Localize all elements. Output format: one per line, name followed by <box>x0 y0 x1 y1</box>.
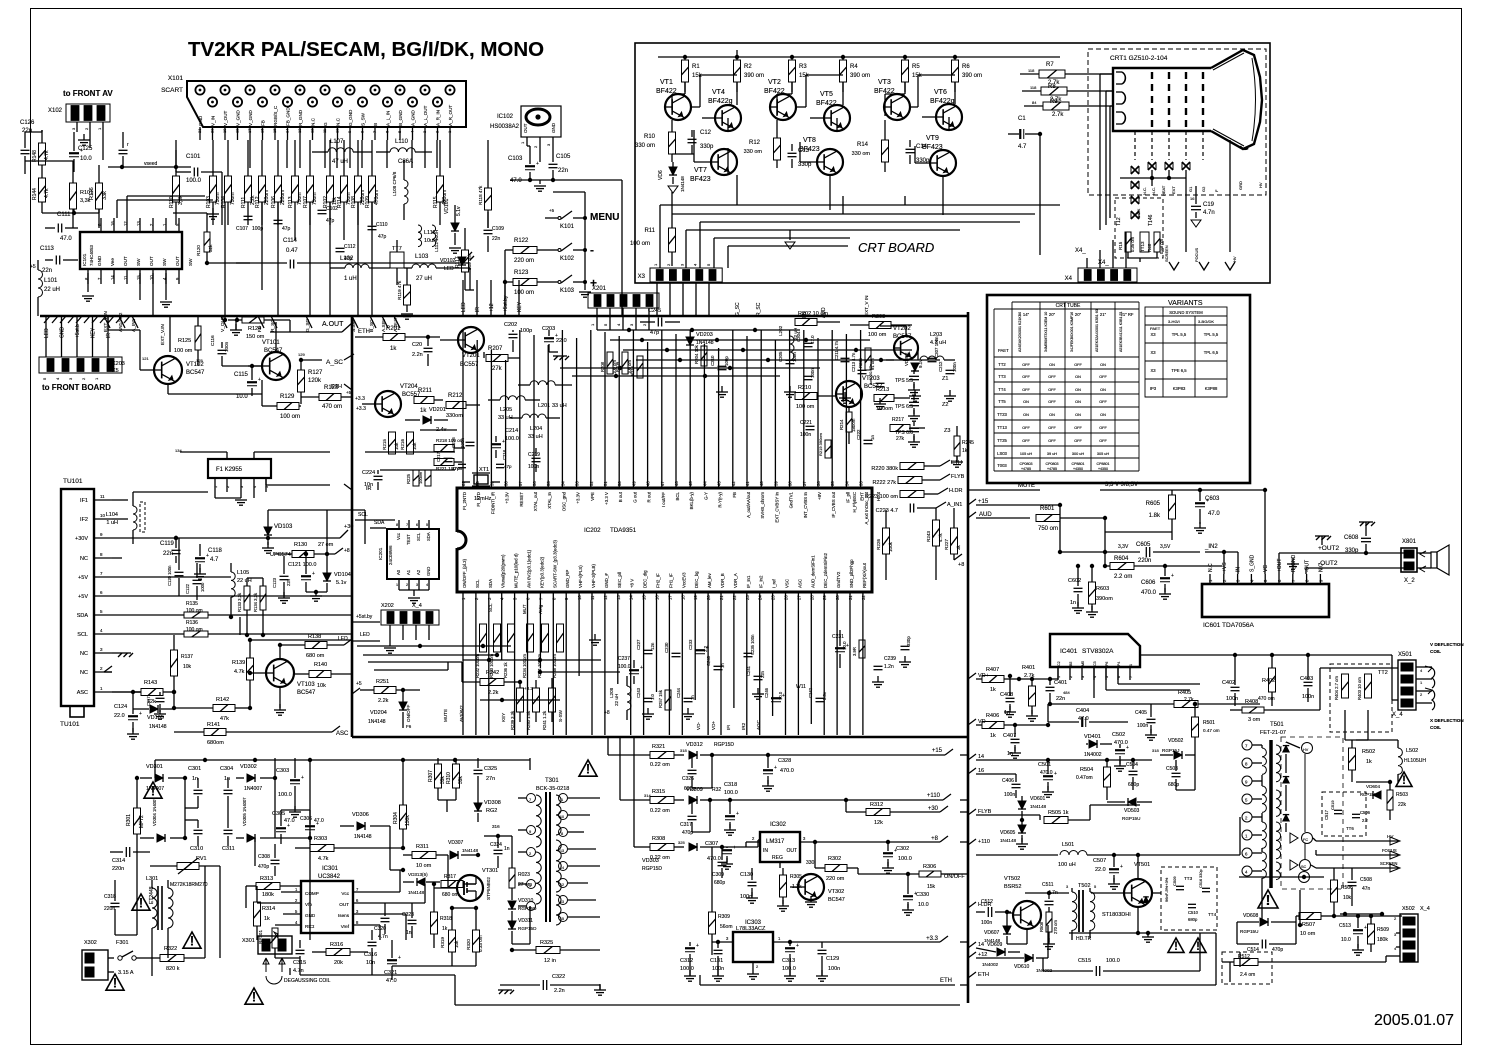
key K102 <box>545 243 594 262</box>
svg-text:R211: R211 <box>418 388 433 394</box>
svg-text:7: 7 <box>1245 744 1248 749</box>
svg-text:VD503: VD503 <box>1124 808 1140 814</box>
inductor L203 <box>918 332 955 360</box>
svg-text:B out: B out <box>618 491 623 502</box>
svg-text:R106: R106 <box>271 196 277 208</box>
svg-text:24C08W6: 24C08W6 <box>388 545 393 565</box>
svg-text:32k: 32k <box>208 244 213 252</box>
rail vseed <box>108 161 191 169</box>
svg-text:TT6: TT6 <box>1346 826 1354 831</box>
svg-text:390 om: 390 om <box>850 73 870 79</box>
svg-text:R out: R out <box>647 491 652 502</box>
resistor R7 <box>1020 62 1113 86</box>
capacitor C223 <box>876 504 936 515</box>
svg-text:1: 1 <box>396 583 398 587</box>
svg-text:R221 100 om: R221 100 om <box>436 466 464 471</box>
svg-text:9: 9 <box>1245 780 1248 785</box>
svg-text:OFF: OFF <box>1074 363 1082 367</box>
svg-text:100.0: 100.0 <box>680 966 694 972</box>
warning triangle psu2 <box>132 894 150 910</box>
svg-text:2.2k: 2.2k <box>378 698 389 704</box>
svg-text:5: 5 <box>603 323 608 326</box>
transistor VT9 <box>922 135 956 176</box>
svg-text:50: 50 <box>617 481 622 486</box>
tuner TU101 <box>60 478 94 728</box>
svg-text:L105: L105 <box>237 570 249 576</box>
resistor R3 <box>789 57 810 92</box>
svg-text:4: 4 <box>253 486 257 488</box>
svg-text:R232 100om: R232 100om <box>475 654 480 678</box>
svg-text:3: 3 <box>1081 676 1085 678</box>
resistor R214 <box>839 407 856 444</box>
svg-text:TT4: TT4 <box>998 387 1006 392</box>
capacitor C235 <box>744 634 756 657</box>
svg-text:C212: C212 <box>938 361 943 372</box>
svg-text:22n: 22n <box>163 551 173 557</box>
svg-text:R124: R124 <box>248 326 261 332</box>
svg-text:12: 12 <box>560 883 564 887</box>
svg-text:100n: 100n <box>1004 792 1015 798</box>
resistor R128 <box>301 385 352 410</box>
svg-text:R120: R120 <box>196 245 201 256</box>
svg-text:2.2k: 2.2k <box>488 690 499 696</box>
svg-text:118: 118 <box>1028 68 1035 73</box>
resistor R139 <box>232 640 254 692</box>
svg-text:R241 1.2k: R241 1.2k <box>542 710 547 730</box>
svg-text:X3: X3 <box>638 274 646 280</box>
svg-text:XTAL_out: XTAL_out <box>533 491 538 511</box>
svg-text:VD306: VD306 <box>352 812 369 818</box>
wires right cluster <box>880 326 936 580</box>
svg-text:VT1: VT1 <box>660 79 673 86</box>
svg-text:REG: REG <box>772 855 783 861</box>
connector X203 <box>39 341 125 380</box>
svg-text:R311: R311 <box>416 844 429 850</box>
IC601 pins <box>1208 554 1324 584</box>
CRT board wiring <box>660 50 1060 268</box>
svg-text:1: 1 <box>97 127 102 130</box>
svg-text:VC: VC <box>1263 565 1269 572</box>
inductor L208 <box>609 676 631 720</box>
svg-text:6: 6 <box>100 590 103 595</box>
svg-text:3.3n: 3.3n <box>822 691 827 700</box>
resistor R130 <box>275 542 350 558</box>
svg-text:X501: X501 <box>1398 652 1413 658</box>
svg-text:UPC574: UPC574 <box>270 552 291 558</box>
svg-text:10: 10 <box>100 513 106 518</box>
inductor L202 <box>778 325 798 360</box>
svg-text:SCL: SCL <box>488 603 493 612</box>
svg-text:15k: 15k <box>799 73 810 79</box>
svg-text:GndTV1: GndTV1 <box>789 491 794 508</box>
svg-text:1n: 1n <box>870 435 875 440</box>
svg-text:1: 1 <box>590 323 595 326</box>
svg-text:75om: 75om <box>230 192 236 205</box>
svg-text:Vee: Vee <box>110 258 115 266</box>
svg-text:R109: R109 <box>365 196 371 208</box>
svg-text:52: 52 <box>589 481 594 486</box>
svg-text:FB: FB <box>261 120 266 126</box>
svg-text:VT502: VT502 <box>1004 876 1020 882</box>
svg-text:C210: C210 <box>710 355 715 366</box>
capacitor C316 <box>364 930 377 966</box>
svg-text:LS03: LS03 <box>997 451 1007 456</box>
svg-text:L201: L201 <box>538 403 550 409</box>
svg-text:100p: 100p <box>520 328 532 334</box>
resistor R1 <box>682 57 703 92</box>
svg-text:VD311: VD311 <box>518 918 533 924</box>
diode VD604 <box>1360 784 1381 799</box>
svg-text:ETH: ETH <box>358 329 370 335</box>
svg-text:5: 5 <box>265 486 269 488</box>
warning triangle near T301 <box>579 760 597 776</box>
svg-text:C501: C501 <box>1038 762 1051 768</box>
capacitor C507 <box>1093 853 1123 889</box>
svg-text:22n: 22n <box>42 268 52 274</box>
svg-text:RESET: RESET <box>519 492 524 507</box>
svg-text:5: 5 <box>295 909 298 914</box>
svg-text:10.0: 10.0 <box>918 902 929 908</box>
svg-text:C403: C403 <box>1300 676 1313 682</box>
svg-text:C204: C204 <box>796 331 801 342</box>
capacitor C232 <box>688 639 709 654</box>
svg-text:+110: +110 <box>978 839 990 845</box>
resistor R305 <box>777 868 802 911</box>
svg-text:C602: C602 <box>1068 578 1081 584</box>
capacitor C515 <box>1043 933 1200 976</box>
svg-text:BC547: BC547 <box>828 897 845 903</box>
svg-text:330 om: 330 om <box>744 149 763 155</box>
svg-text:R1: R1 <box>692 64 700 70</box>
transistor VT6 <box>930 89 962 130</box>
resistor R320 <box>466 908 483 966</box>
svg-text:R144: R144 <box>32 188 38 200</box>
svg-text:390om: 390om <box>1096 596 1113 602</box>
svg-text:C126: C126 <box>20 120 35 126</box>
svg-text:39k: 39k <box>458 775 464 784</box>
CRT electrode leads <box>1135 131 1203 160</box>
svg-text:R503: R503 <box>1396 792 1408 798</box>
diode VD103 <box>262 510 365 558</box>
svg-text:3,3k: 3,3k <box>178 195 184 205</box>
resistor R202 <box>795 311 840 326</box>
svg-text:2: 2 <box>642 323 647 326</box>
resistor R118 <box>478 140 492 228</box>
svg-text:10k: 10k <box>1343 895 1352 901</box>
front board signal labels mid <box>461 280 523 316</box>
capacitor C218 <box>496 449 512 469</box>
svg-text:R205: R205 <box>858 357 863 368</box>
flag ONOFF <box>944 874 965 880</box>
svg-text:47.0: 47.0 <box>314 818 324 824</box>
svg-text:VT7: VT7 <box>694 167 707 174</box>
svg-text:OFF: OFF <box>1099 439 1107 443</box>
svg-text:2: 2 <box>533 145 538 148</box>
svg-text:IC601 TDA7056A: IC601 TDA7056A <box>1203 622 1254 629</box>
svg-text:2.4v: 2.4v <box>436 427 447 433</box>
svg-text:6: 6 <box>416 523 418 527</box>
svg-text:R7: R7 <box>1046 62 1054 68</box>
svg-text:C123: C123 <box>272 577 277 588</box>
capacitor C102 <box>318 206 339 224</box>
svg-text:1k: 1k <box>420 408 427 414</box>
mid block left flags <box>331 384 372 492</box>
svg-text:C112: C112 <box>344 244 356 250</box>
svg-text:SDA: SDA <box>488 579 493 588</box>
transformer T502 <box>1066 883 1097 942</box>
svg-text:R148: R148 <box>32 150 38 162</box>
svg-text:100 om: 100 om <box>186 608 203 614</box>
capacitor C221 <box>800 420 815 438</box>
svg-text:FC: FC <box>1303 838 1308 842</box>
resistor R46 <box>1147 232 1164 254</box>
menu key bus wires <box>503 180 622 316</box>
svg-text:R325: R325 <box>540 940 553 946</box>
resistor R323 <box>509 836 532 900</box>
svg-text:22n: 22n <box>492 236 501 242</box>
svg-text:47p: 47p <box>282 226 291 232</box>
svg-text:C116: C116 <box>210 335 215 346</box>
capacitor C328 <box>762 753 794 791</box>
svg-text:ASC: ASC <box>797 579 802 588</box>
capacitor C315 <box>293 940 306 975</box>
resistor R308 <box>634 836 685 861</box>
IC202 extra top labels <box>852 491 881 524</box>
svg-text:3: 3 <box>726 936 729 941</box>
svg-text:0.47 om: 0.47 om <box>1203 728 1220 733</box>
svg-text:VD+: VD+ <box>711 721 716 730</box>
svg-text:C407: C407 <box>1003 733 1016 739</box>
diode VD204 <box>368 690 412 729</box>
svg-text:VD301: VD301 <box>146 764 163 770</box>
svg-text:BF422g: BF422g <box>930 98 955 105</box>
svg-text:!: ! <box>1402 773 1406 787</box>
svg-text:11: 11 <box>590 595 595 600</box>
inductor L501 <box>1058 842 1240 868</box>
svg-text:330p: 330p <box>906 636 911 646</box>
svg-text:10 om: 10 om <box>416 863 432 869</box>
dashed box C517 <box>1322 792 1371 836</box>
svg-text:100om: 100om <box>876 406 893 412</box>
svg-text:470p: 470p <box>1272 947 1283 953</box>
diode VD503 <box>1107 798 1152 821</box>
svg-text:8: 8 <box>396 523 398 527</box>
transistor VT501 <box>1091 862 1152 918</box>
svg-text:VD312: VD312 <box>686 742 703 748</box>
IC401 pins <box>1057 661 1133 680</box>
capacitor C405 <box>1135 704 1157 740</box>
svg-text:N.C.: N.C. <box>1142 187 1147 195</box>
svg-text:+: + <box>733 845 736 851</box>
svg-text:22n: 22n <box>22 128 32 134</box>
svg-text:+5V: +5V <box>78 575 88 581</box>
svg-text:X101: X101 <box>168 75 184 82</box>
capacitor C206 <box>804 368 816 380</box>
svg-text:12mHz: 12mHz <box>474 496 492 502</box>
capacitor C207 <box>928 336 940 362</box>
svg-text:R32: R32 <box>712 787 721 793</box>
connector X201 <box>588 286 659 330</box>
resistor R226 <box>876 510 893 566</box>
svg-text:0.47om: 0.47om <box>1076 775 1093 781</box>
svg-text:R316: R316 <box>330 942 343 948</box>
svg-text:Vref: Vref <box>341 924 350 929</box>
svg-text:R140: R140 <box>314 662 327 668</box>
svg-text:EXT_V.IN: EXT_V.IN <box>160 324 166 345</box>
svg-text:15: 15 <box>560 917 564 921</box>
svg-text:SDA: SDA <box>77 613 89 619</box>
svg-text:C504: C504 <box>1126 762 1138 768</box>
resistor R127 <box>298 358 324 404</box>
resistor R116 <box>89 165 108 228</box>
svg-text:X502: X502 <box>1402 906 1415 912</box>
svg-text:R117: R117 <box>455 256 461 268</box>
resistor R142 <box>174 692 252 722</box>
svg-text:RGB/S_C: RGB/S_C <box>273 105 278 126</box>
svg-text:560 om: 560 om <box>467 255 472 270</box>
svg-text:R8: R8 <box>1048 84 1056 90</box>
svg-text:COIL: COIL <box>1430 725 1441 730</box>
svg-text:H_FlyBSC: H_FlyBSC <box>852 492 857 513</box>
svg-text:47.0: 47.0 <box>60 236 72 242</box>
svg-text:470.0: 470.0 <box>707 856 721 862</box>
svg-text:C227: C227 <box>636 639 641 650</box>
svg-text:N.C: N.C <box>1208 563 1214 572</box>
svg-text:R306: R306 <box>923 864 936 870</box>
front board signal labels left <box>44 316 112 341</box>
svg-text:!: ! <box>1174 939 1178 953</box>
svg-text:VD309: VD309 <box>686 787 703 793</box>
svg-text:IF_In2: IF_In2 <box>759 575 764 588</box>
svg-text:+3.3 V: +3.3 V <box>604 492 609 505</box>
svg-text:GND: GND <box>305 913 316 918</box>
transistor VT202 <box>893 326 918 360</box>
svg-text:3 om: 3 om <box>1248 717 1261 723</box>
svg-text:AVI 0V2(p3.1(edc1): AVI 0V2(p3.1(edc1) <box>527 549 532 588</box>
svg-text:R216: R216 <box>630 365 635 376</box>
svg-text:34JFEKB0X001 K3MF16: 34JFEKB0X001 K3MF16 <box>1070 312 1074 352</box>
svg-text:100.0: 100.0 <box>782 966 796 972</box>
svg-text:C508: C508 <box>1360 877 1372 883</box>
svg-text:LED: LED <box>44 328 50 338</box>
svg-text:47n: 47n <box>1362 886 1371 892</box>
svg-text:R143: R143 <box>144 680 157 686</box>
svg-text:R502: R502 <box>1362 749 1375 755</box>
svg-text:100n: 100n <box>952 362 957 372</box>
svg-text:VARIANTS: VARIANTS <box>1168 300 1203 307</box>
svg-text:2.7k: 2.7k <box>1052 112 1064 118</box>
svg-text:R302: R302 <box>828 856 841 862</box>
svg-text:C211 4.7n: C211 4.7n <box>834 340 839 360</box>
svg-text:9: 9 <box>529 829 532 834</box>
warning triangle psu3 <box>183 932 201 948</box>
svg-text:+110: +110 <box>927 793 941 799</box>
transistor VT203 <box>836 376 883 407</box>
svg-text:A2: A2 <box>416 569 421 575</box>
svg-text:X201: X201 <box>592 286 607 292</box>
svg-text:22k: 22k <box>1398 802 1407 808</box>
IC102 HS0038A2 IR receiver <box>490 106 561 162</box>
inductor L104 <box>106 492 208 544</box>
svg-text:C3: C3 <box>1093 661 1097 666</box>
svg-text:VT4: VT4 <box>712 89 725 96</box>
chassis ground psu <box>498 984 606 995</box>
horizontal routing above IC202 <box>365 328 940 470</box>
svg-text:2.2n: 2.2n <box>412 352 423 358</box>
svg-text:A1: A1 <box>406 569 411 575</box>
svg-text:470.0: 470.0 <box>1114 740 1128 746</box>
psu mid wires <box>115 758 312 958</box>
svg-text:OUT: OUT <box>149 256 154 266</box>
svg-text:ST1803DHI: ST1803DHI <box>1102 912 1131 918</box>
svg-text:15: 15 <box>642 595 647 600</box>
svg-text:42: 42 <box>731 481 736 486</box>
svg-text:C205: C205 <box>778 351 783 362</box>
svg-text:A_R_OUT: A_R_OUT <box>448 105 453 126</box>
diode VD302 <box>236 764 275 792</box>
svg-text:R208: R208 <box>600 361 605 372</box>
diode VD601 <box>1018 796 1047 820</box>
svg-text:8: 8 <box>100 552 103 557</box>
svg-text:1: 1 <box>214 486 218 488</box>
svg-text:C511: C511 <box>1042 882 1054 888</box>
svg-text:VT204: VT204 <box>400 384 418 390</box>
speaker LS <box>1420 545 1449 575</box>
svg-text:16: 16 <box>978 768 984 774</box>
svg-text:A.OUT: A.OUT <box>322 321 344 328</box>
svg-text:GND: GND <box>426 567 431 576</box>
capacitor C306 <box>300 810 324 842</box>
diode VD309 <box>686 787 943 804</box>
svg-text:C310: C310 <box>190 846 203 852</box>
svg-text:R239 3.3k: R239 3.3k <box>510 710 515 730</box>
svg-text:L110: L110 <box>395 139 409 145</box>
svg-text:C244: C244 <box>676 687 681 698</box>
resistor R505 <box>1044 805 1140 824</box>
resistor R134 <box>247 578 266 634</box>
svg-text:100.0: 100.0 <box>505 436 519 442</box>
svg-text:1N4148: 1N4148 <box>696 340 714 346</box>
svg-text:BF422g: BF422g <box>708 98 733 105</box>
label A.OUT <box>270 320 352 332</box>
svg-text:680p: 680p <box>1188 917 1198 922</box>
svg-text:V_OUT: V_OUT <box>223 110 228 126</box>
resistor R216b <box>630 356 643 378</box>
capacitor C501 <box>1038 760 1057 797</box>
svg-text:R115: R115 <box>433 196 439 208</box>
svg-text:316: 316 <box>492 824 500 829</box>
svg-text:LED: LED <box>338 636 348 642</box>
connector X4 <box>1065 232 1137 282</box>
svg-text:XTAL_In: XTAL_In <box>547 491 552 508</box>
svg-text:R214: R214 <box>839 419 844 430</box>
svg-text:+30V: +30V <box>75 536 88 542</box>
svg-text:680p: 680p <box>1168 782 1179 788</box>
capacitor C602 <box>1068 564 1084 613</box>
svg-text:GND: GND <box>60 327 66 339</box>
rail 3.3/8.5V <box>1105 482 1267 574</box>
svg-text:+8: +8 <box>931 836 939 842</box>
svg-text:R201: R201 <box>386 326 401 332</box>
svg-text:16: 16 <box>655 595 660 600</box>
svg-text:3: 3 <box>71 127 76 130</box>
svg-text:VD604: VD604 <box>1366 784 1380 789</box>
svg-text:R402: R402 <box>1262 678 1275 684</box>
fuse F301 <box>116 940 152 976</box>
svg-text:BC547: BC547 <box>297 690 316 696</box>
resistor R223 <box>865 491 938 501</box>
svg-text:C516 330p: C516 330p <box>1199 869 1203 888</box>
